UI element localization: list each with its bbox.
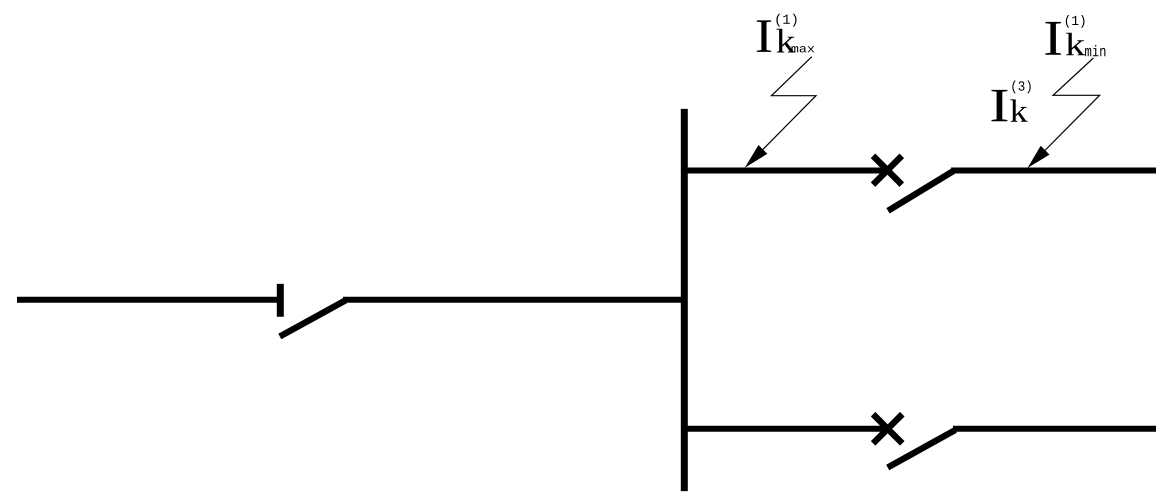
busbar: [681, 109, 688, 491]
label Ikmax(1) : I: [757, 20, 772, 52]
leader lightning arrow to right fault Ikmin: [1028, 58, 1100, 168]
wire: bottom branch from busbar: [681, 426, 890, 432]
label Ikmin(1) : subscript k: [1066, 33, 1085, 56]
wire: top branch from busbar: [681, 168, 889, 174]
label Ikmin(1) : I: [1045, 22, 1061, 55]
wire: top branch outgoing line: [951, 168, 1156, 174]
fault marker X on bottom branch: [873, 414, 902, 443]
label Ikmin(1) : subscript min: [1085, 45, 1105, 56]
label Ik(3) : superscript (3): [1012, 81, 1030, 94]
breaker open blade on bottom branch: [888, 430, 956, 468]
fault marker X on top branch: [873, 156, 902, 185]
breaker open blade on top branch: [888, 171, 953, 211]
label Ikmax(1) : subscript k: [776, 29, 795, 53]
label Ikmax(1) : superscript (1): [776, 14, 796, 27]
disconnector QS1 open blade: [280, 300, 346, 336]
wire: incoming feeder line: [17, 297, 278, 303]
label Ik(3) : I: [992, 90, 1008, 121]
wire: bottom branch outgoing line: [953, 426, 1156, 432]
wire: feeder line from disconnector to busbar: [343, 297, 684, 303]
label Ikmin(1) : superscript (1): [1066, 15, 1085, 28]
leader lightning arrow to top fault Ikmax: [745, 57, 816, 168]
disconnector QS1 fixed contact bar: [277, 284, 284, 317]
label Ik(3) : subscript k: [1010, 99, 1027, 121]
label Ikmax(1) : subscript max: [792, 46, 815, 52]
